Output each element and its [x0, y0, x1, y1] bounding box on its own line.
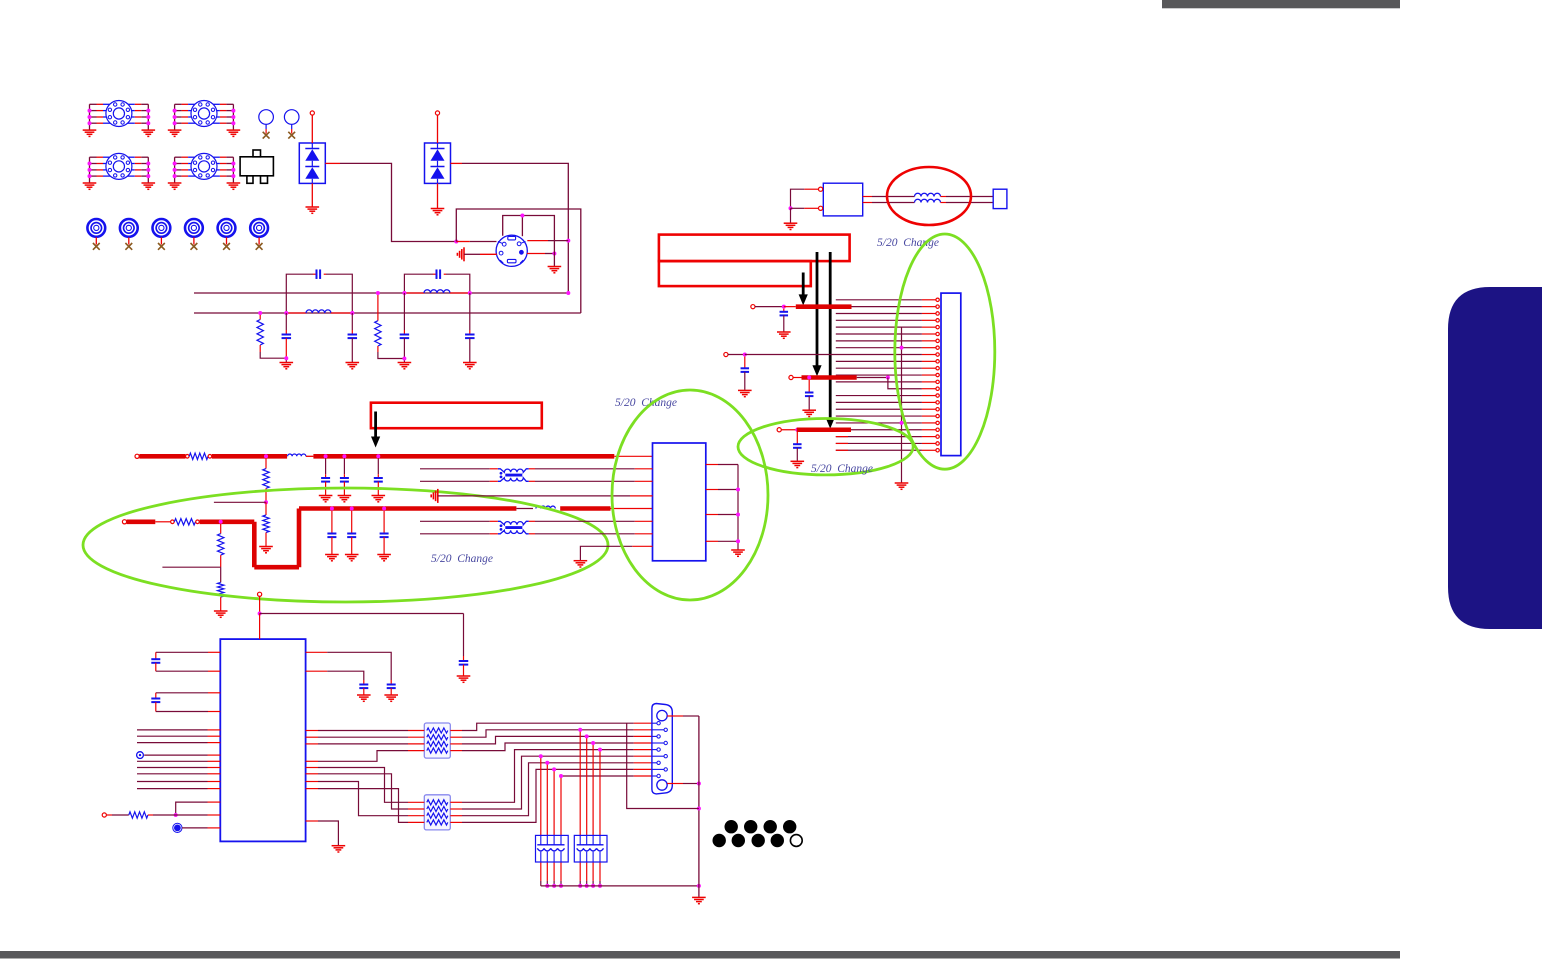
- capacitor C12 loop: [208, 651, 220, 653]
- wire jog: [888, 378, 922, 389]
- annotation rect 2: [659, 261, 811, 286]
- annotation rect 1: [659, 235, 850, 262]
- wire: [781, 429, 797, 431]
- wire J4 gnd rail: [698, 716, 700, 897]
- wire choke2 top-right: [529, 520, 535, 522]
- terminal bar1: [751, 305, 755, 309]
- capacitor: [351, 511, 353, 534]
- wire braid r9: [306, 781, 318, 783]
- wire DIN pin4 to net: [527, 240, 548, 242]
- K1 pins: [936, 298, 939, 301]
- wire to ground: [790, 208, 792, 222]
- transformer T2: [174, 104, 176, 130]
- capacitor pack CP2: [574, 835, 607, 862]
- resistor R6: [171, 520, 175, 524]
- capacitor C6: [469, 293, 471, 330]
- capacitor C9: [796, 432, 798, 444]
- connector J2 (mini-DIN): [496, 235, 527, 266]
- bus bar B1: [796, 304, 852, 309]
- junction: [697, 807, 701, 811]
- capacitor: [383, 511, 385, 534]
- capacitor C2: [285, 313, 287, 330]
- terminal bar3: [777, 428, 781, 432]
- highlight ellipse (red): [887, 167, 971, 225]
- resistor R2: [377, 293, 379, 321]
- bus bar row1 a: [139, 454, 185, 459]
- ground: [280, 362, 294, 364]
- junction: [520, 214, 524, 218]
- svg-text:5/20 Change: 5/20 Change: [431, 553, 493, 565]
- capacitor C5: [403, 293, 405, 330]
- bus bar row1 c: [313, 454, 614, 459]
- ground: [372, 495, 386, 497]
- ic U2: [653, 443, 706, 561]
- wire J2 shield bar: [503, 216, 555, 267]
- ground: [357, 694, 371, 696]
- wire U6 out2: [863, 202, 872, 204]
- ground: [574, 560, 588, 562]
- capacitor C11: [459, 660, 469, 662]
- dual diode D2: [425, 143, 451, 183]
- wire braid r6: [306, 760, 318, 762]
- annotation rect 3: [371, 403, 542, 429]
- wire U6 pin2: [791, 207, 805, 209]
- wire choke1 top-left: [420, 468, 490, 470]
- test point TP2: [284, 110, 299, 125]
- wire U3 r1: [306, 651, 328, 653]
- capacitor C8: [808, 380, 810, 393]
- ground: [731, 549, 745, 551]
- terminal bus1: [135, 454, 139, 458]
- wire D2 to ground: [437, 183, 439, 208]
- bus bar B2: [802, 375, 857, 380]
- port symbol 2: [174, 825, 181, 832]
- junction: [736, 488, 740, 492]
- ground: [777, 331, 791, 333]
- regulator U5 (SOT-23 outline): [240, 157, 273, 176]
- transformer T1: [89, 104, 91, 130]
- arrow 2: [816, 252, 819, 367]
- resistor R8: [220, 567, 222, 582]
- page banner bottom: [0, 951, 1400, 959]
- terminal P2: [435, 111, 439, 115]
- highlight ellipse (green) left: [83, 488, 608, 602]
- wire U2 right pins: [706, 464, 718, 466]
- ic U3: [220, 639, 305, 841]
- bus bar row3 b: [560, 506, 610, 511]
- capacitor: [343, 458, 345, 474]
- wire braid r7: [306, 767, 318, 769]
- wire J4 shell bottom: [667, 783, 683, 785]
- junction: [264, 454, 268, 458]
- wire choke2 top-left: [420, 520, 490, 522]
- K1 harness wires: [836, 299, 922, 301]
- wire choke2 bot-left: [420, 533, 490, 535]
- transformer T4: [174, 157, 176, 183]
- terminal P4: [258, 592, 262, 596]
- wire: [755, 306, 784, 308]
- wire bottom bus: [541, 885, 699, 887]
- junction: [782, 305, 786, 309]
- mounting hole MH3: [153, 219, 171, 237]
- wire choke1 top-right: [529, 468, 535, 470]
- wire node to DIN pin3: [456, 241, 470, 243]
- resistor R1: [259, 313, 261, 320]
- ground: [802, 409, 816, 411]
- wire braid r8: [306, 773, 318, 775]
- chassis ground: [463, 247, 465, 261]
- junction: [697, 884, 701, 888]
- wire U2 pin8: [580, 546, 632, 560]
- ground: [332, 845, 346, 847]
- wire pin stub: [614, 455, 652, 457]
- wire U6 pin1: [804, 188, 818, 190]
- wire power run: [260, 613, 464, 615]
- capacitor C1 bridge: [286, 274, 313, 313]
- junction: [284, 356, 288, 360]
- wire stub: [162, 566, 220, 568]
- ground: [259, 546, 273, 548]
- wire choke1 bot-left: [420, 480, 490, 482]
- wire U3 left pins: [208, 729, 221, 731]
- mounting hole MH2: [120, 219, 138, 237]
- wire U2 pin4: [438, 495, 630, 497]
- junction: [697, 782, 701, 786]
- wire braid r4: [306, 736, 318, 738]
- ground: [345, 554, 359, 556]
- ground: [692, 896, 706, 898]
- choke T6: [498, 521, 529, 525]
- wire row B: [194, 312, 581, 314]
- junction: [402, 291, 406, 295]
- resistor R4: [265, 458, 267, 468]
- wire choke1 bot-right: [529, 480, 535, 482]
- ground: [325, 554, 339, 556]
- ground: [377, 554, 391, 556]
- ground: [457, 675, 471, 677]
- wire P2 to D2: [437, 115, 439, 143]
- ground: [791, 460, 805, 462]
- bus bar B3: [797, 427, 851, 432]
- junction: [174, 813, 178, 817]
- inductor L5: [288, 454, 306, 456]
- terminal bar2: [789, 375, 793, 379]
- wire U2 gnd rail: [737, 465, 739, 550]
- junction: [807, 376, 811, 380]
- side tab: [1448, 287, 1542, 629]
- terminal pins U6: [819, 187, 823, 191]
- bus bar row3 a: [299, 506, 516, 511]
- wire U6 out1: [863, 196, 872, 198]
- arrow 1: [802, 273, 805, 297]
- wire: [857, 377, 888, 379]
- junction: [454, 240, 458, 244]
- junction: [324, 454, 328, 458]
- junction: [376, 291, 380, 295]
- highlight ellipse (green) right: [895, 234, 995, 469]
- junction: [402, 357, 406, 361]
- capacitor C13 loop: [208, 692, 220, 694]
- arrow 4: [374, 412, 377, 439]
- capacitor C15: [359, 684, 368, 686]
- highlight ellipse (green) bottom: [738, 419, 913, 475]
- junction: [264, 500, 268, 504]
- wire U3 pin strap: [208, 801, 221, 803]
- wire: [852, 306, 922, 308]
- bus jog: [252, 522, 257, 567]
- wire J4 shell top: [667, 715, 683, 717]
- resistor pack RP2: [424, 795, 450, 830]
- wire braid r10: [306, 788, 318, 790]
- wire J4 loop: [627, 723, 699, 808]
- capacitor C4 bridge: [404, 274, 433, 293]
- junction: [342, 454, 346, 458]
- wire P1 to D1: [311, 115, 313, 143]
- wire RP1 to J4: [450, 730, 462, 732]
- inductor L1: [286, 312, 306, 314]
- resistor R7: [220, 524, 222, 534]
- junction: [886, 376, 890, 380]
- inductor L2: [404, 292, 424, 294]
- wire L4 to J3: [941, 202, 947, 204]
- wire riser net: [456, 209, 581, 313]
- wire: [745, 354, 922, 356]
- wire chassis to J2: [464, 253, 480, 255]
- terminal bus2: [122, 520, 126, 524]
- junction: [350, 507, 354, 511]
- junction: [330, 507, 334, 511]
- capacitor C14: [387, 684, 396, 686]
- port symbol: [137, 752, 144, 759]
- capacitor: [377, 458, 379, 474]
- K1 pin stubs: [922, 299, 936, 301]
- junction: [566, 239, 570, 243]
- wire: [182, 827, 208, 829]
- ground: [398, 362, 412, 364]
- ground: [384, 694, 398, 696]
- junction: [382, 507, 386, 511]
- capacitor: [325, 458, 327, 474]
- wire: [793, 377, 801, 379]
- mounting hole MH1: [87, 219, 105, 237]
- wire U3 top pin: [259, 614, 261, 640]
- resistor R9: [102, 813, 106, 817]
- wire cap pack A verticals: [540, 756, 542, 835]
- junction: [258, 311, 262, 315]
- ground: [319, 495, 333, 497]
- wire pin stub: [611, 508, 653, 510]
- arrow 3: [829, 252, 832, 420]
- ground: [784, 222, 798, 224]
- capacitor C10: [744, 357, 746, 369]
- ground: [548, 266, 562, 268]
- ground: [463, 362, 477, 364]
- junction: [258, 612, 262, 616]
- terminal P1: [310, 111, 314, 115]
- wire vertical net: [901, 327, 903, 482]
- ground: [738, 389, 752, 391]
- capacitor pack CP1: [536, 835, 569, 862]
- choke T5: [498, 469, 529, 473]
- wire: [259, 596, 261, 613]
- ground: [431, 208, 445, 210]
- wire: [851, 429, 922, 431]
- mounting hole MH4: [185, 219, 203, 237]
- wire: [516, 508, 533, 510]
- ground: [895, 482, 909, 484]
- transformer T3: [89, 157, 91, 183]
- wire row A: [194, 292, 568, 294]
- wire: [728, 354, 745, 356]
- bus bar row2 a: [127, 519, 156, 524]
- mounting hole MH6: [250, 219, 268, 237]
- wire: [306, 455, 314, 457]
- resistor R3: [186, 455, 190, 459]
- chassis ground: [437, 489, 439, 503]
- inductor L4: [915, 199, 941, 202]
- wire L3 to J3: [941, 196, 947, 198]
- bus bar row1 b: [212, 454, 287, 459]
- wire RP2 to J4: [450, 801, 462, 803]
- wire braid r3: [306, 730, 318, 732]
- junction: [789, 206, 793, 210]
- wire D1 tap: [325, 162, 340, 164]
- dual diode D1: [299, 143, 325, 183]
- ground: [338, 495, 352, 497]
- highlight ellipse (green) mid: [612, 390, 768, 600]
- inductor L6: [536, 506, 555, 508]
- resistor pack RP1: [424, 723, 450, 758]
- junction: [743, 353, 747, 357]
- ground: [214, 610, 228, 612]
- indicator dots: [725, 820, 738, 833]
- connector J3: [993, 189, 1007, 208]
- connector K1: [941, 293, 961, 456]
- wire: [784, 306, 796, 308]
- component U6: [823, 183, 862, 216]
- junction: [376, 454, 380, 458]
- test point TP1: [259, 110, 274, 125]
- capacitor C3: [351, 313, 353, 330]
- mounting hole MH5: [218, 219, 236, 237]
- wire U3 r2: [306, 670, 328, 672]
- svg-text:5/20 Change: 5/20 Change: [811, 463, 873, 475]
- page banner top: [1162, 0, 1400, 8]
- capacitor C7: [783, 309, 785, 312]
- wire stub: [214, 501, 266, 503]
- wire D1 to ground: [311, 183, 313, 206]
- wire J2 pin2 to gnd net: [527, 253, 545, 255]
- wire J4 row9: [561, 775, 634, 777]
- junction: [795, 428, 799, 432]
- inductor L3: [915, 193, 941, 196]
- wire cap pack B verticals: [579, 730, 581, 836]
- junction row A end: [566, 291, 570, 295]
- wire braid r5: [306, 743, 318, 745]
- wire D2 tap: [451, 162, 463, 164]
- ground: [306, 206, 320, 208]
- ground: [346, 362, 360, 364]
- wire choke2 bot-right: [529, 533, 535, 535]
- wire: [155, 521, 170, 523]
- terminal P3: [724, 352, 728, 356]
- junction: [900, 346, 904, 350]
- capacitor: [331, 511, 333, 534]
- junction: [219, 520, 223, 524]
- junction: [552, 252, 556, 256]
- connector J4 (DB9): [652, 704, 672, 794]
- junction: [284, 311, 288, 315]
- resistor R5: [265, 502, 267, 515]
- wire U3 gnd pin: [306, 820, 318, 822]
- bus bar row2 b: [200, 519, 255, 524]
